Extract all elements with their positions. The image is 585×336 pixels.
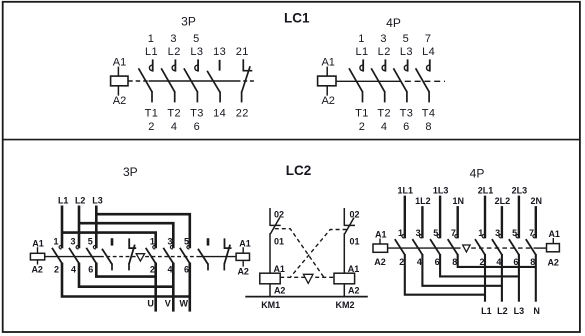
svg-text:T3: T3 (190, 107, 204, 119)
wire KM1 coil to bottom rail (269, 284, 271, 297)
svg-text:KM1: KM1 (261, 300, 280, 310)
output wire W (189, 263, 192, 312)
svg-text:6: 6 (403, 121, 410, 133)
main contact L4-T4 (4P): lower terminal (428, 91, 430, 102)
output wire V (172, 263, 175, 312)
svg-text:T4: T4 (422, 107, 436, 119)
main contact L3-T3: fixed terminal with semicircle (195, 59, 198, 71)
aux NO contact: lower terminal stub (111, 263, 113, 270)
svg-text:8: 8 (425, 121, 432, 133)
svg-text:5: 5 (403, 33, 410, 45)
main contact 4P right pole 2: fixed contact semicircle (499, 234, 502, 237)
svg-text:22: 22 (236, 107, 249, 119)
main contact L2-T2 (4P): moving blade (371, 68, 385, 92)
output wire left pole 6 to L3 (440, 254, 519, 276)
svg-text:A1: A1 (239, 238, 251, 248)
main contact L3-T3: moving blade (184, 68, 198, 92)
svg-text:A2: A2 (237, 267, 249, 277)
wire coil to A2 (117, 86, 119, 96)
output wire left pole 6 to U (96, 263, 155, 277)
linkage line dashed (100, 256, 136, 258)
main contact L3-T3 (4P): fixed terminal with semicircle (404, 59, 407, 71)
svg-text:2L2: 2L2 (495, 196, 511, 206)
aux NO contact 13-14: lower terminal (219, 92, 221, 103)
svg-text:W: W (179, 299, 188, 309)
supply wire L1 (61, 206, 64, 249)
aux NC contact 21-22: moving blade (242, 66, 251, 92)
main contact 3-4 right: fixed contact semicircle (170, 245, 173, 248)
svg-text:L2: L2 (497, 306, 508, 316)
aux NC contact: fixed terminal with stop bar (129, 238, 136, 248)
svg-text:A2: A2 (374, 257, 386, 267)
main contact 1-2 right: moving blade (146, 248, 156, 264)
svg-text:5: 5 (88, 236, 93, 246)
crossover wire L3 to right pole 5 (96, 214, 190, 248)
main contact L2-T2: lower terminal (174, 91, 176, 102)
svg-text:4: 4 (167, 264, 172, 274)
main contact L2-T2 (4P): fixed terminal with semicircle (382, 59, 385, 71)
aux NO contact: moving blade (198, 249, 208, 265)
aux NO contact: lower terminal stub (207, 263, 209, 270)
svg-text:3: 3 (70, 236, 75, 246)
svg-text:L3: L3 (190, 46, 203, 58)
svg-text:U: U (147, 299, 154, 309)
svg-text:L3: L3 (400, 46, 413, 58)
svg-text:6: 6 (513, 257, 518, 267)
mechanical linkage line (solid) (149, 80, 237, 82)
svg-text:L4: L4 (422, 46, 435, 58)
output wire left pole 4 to V (79, 263, 173, 287)
svg-text:1: 1 (148, 33, 155, 45)
svg-text:13: 13 (213, 46, 226, 58)
svg-text:A1: A1 (375, 230, 387, 240)
wire coil to A2 (326, 86, 328, 96)
main contact L1-T1: moving blade (139, 68, 153, 92)
svg-text:6: 6 (435, 257, 440, 267)
main contact 4P right pole 4: fixed contact semicircle (533, 234, 536, 237)
main contact 1-2 left: moving blade (52, 248, 62, 264)
aux NO contact: moving blade (102, 249, 112, 265)
mechanical interlock symbol (136, 254, 144, 261)
mechanical linkage line (dashed near coil) (128, 80, 148, 82)
supply wire (upper row) (439, 196, 441, 239)
coil box LC1 3P (111, 76, 128, 86)
main contact 4P left pole 3: fixed contact semicircle (437, 234, 440, 237)
main contact L3-T3 (4P): moving blade (393, 68, 407, 92)
main contact L1-T1: lower terminal (151, 91, 153, 102)
mechanical interlock symbol (463, 245, 470, 252)
coil box 4P-right (547, 244, 560, 252)
svg-text:3: 3 (380, 33, 387, 45)
svg-text:1: 1 (358, 33, 365, 45)
svg-text:2: 2 (399, 257, 404, 267)
output wire L2 (501, 254, 503, 302)
coil box KM-left (30, 253, 44, 260)
svg-text:L2: L2 (168, 46, 181, 58)
svg-text:7: 7 (425, 33, 432, 45)
wire 01 to KM2 coil (343, 233, 345, 273)
coil box KM1 (260, 273, 280, 284)
output wire U (154, 263, 157, 312)
coil box KM2 (334, 273, 355, 284)
main contact L2-T2: fixed terminal with semicircle (172, 59, 175, 71)
main contact L3-T3 (4P): lower terminal (406, 91, 408, 102)
svg-text:4: 4 (171, 121, 178, 133)
mechanical interlock symbol (303, 274, 313, 283)
main contact L4-T4 (4P): moving blade (416, 68, 430, 92)
output wire left pole 8 to N (458, 254, 536, 267)
mechanical linkage line (dashed right end) (237, 80, 255, 82)
svg-text:01: 01 (274, 236, 284, 246)
main contact 4P right pole 1: moving blade (475, 239, 485, 255)
svg-text:A1: A1 (321, 57, 334, 69)
linkage line dashed (145, 256, 197, 258)
aux NC contact 21-22: lower terminal (241, 92, 243, 103)
main contact L2-T2: moving blade (161, 68, 175, 92)
main contact 1-2 left: fixed contact semicircle (59, 245, 62, 248)
main contact 4P right pole 4: moving blade (526, 239, 536, 255)
svg-text:4: 4 (381, 121, 388, 133)
svg-text:2L1: 2L1 (478, 185, 494, 195)
bottom rail (245, 296, 367, 298)
aux NO contact 13-14: fixed terminal (219, 60, 221, 71)
section divider (3, 139, 580, 141)
supply wire (lower row) (457, 206, 459, 238)
supply wire L3 (95, 206, 98, 249)
svg-text:2N: 2N (531, 196, 543, 206)
aux NC contact 21-22: fixed terminal with stop bar (243, 59, 252, 70)
svg-text:A2: A2 (547, 257, 559, 267)
aux NO contact: fixed terminal (111, 238, 114, 245)
svg-text:6: 6 (194, 121, 201, 133)
svg-text:8: 8 (452, 257, 457, 267)
svg-text:L2: L2 (378, 46, 391, 58)
supply wire (lower row) (421, 206, 423, 238)
svg-text:L1: L1 (355, 46, 368, 58)
svg-text:8: 8 (530, 257, 535, 267)
crossover wire L2 to right pole 3 (79, 223, 173, 248)
svg-text:3: 3 (170, 33, 177, 45)
linkage line solid (left) (45, 256, 100, 258)
crossover wire L1 to right pole 1 (62, 233, 156, 249)
wire A1 to coil (552, 238, 554, 244)
main contact 5-6 left: moving blade (86, 248, 96, 264)
output wire N (535, 254, 537, 302)
KM2 NC contact upper terminal 02 (343, 208, 345, 226)
main contact L1-T1: fixed terminal with semicircle (149, 59, 152, 71)
svg-text:L2: L2 (75, 195, 86, 205)
aux NC contact: lower terminal stub (128, 263, 130, 270)
main contact 3-4 left: moving blade (69, 248, 79, 264)
svg-text:LC2: LC2 (286, 163, 312, 178)
aux NO contact: fixed terminal (207, 238, 210, 245)
wire A1 to coil (242, 247, 244, 253)
main contact 5-6 left: fixed contact semicircle (93, 245, 96, 248)
main contact 3-4 left: fixed contact semicircle (76, 245, 79, 248)
wire coil to A2 (37, 260, 39, 265)
svg-text:1L2: 1L2 (415, 196, 431, 206)
supply wire (lower row) (535, 206, 537, 238)
svg-text:1L3: 1L3 (433, 185, 449, 195)
KM1 NC contact blade (270, 218, 279, 234)
output wire L3 (518, 254, 520, 302)
supply wire (upper row) (404, 196, 406, 239)
interlock link KM2 contact to KM1 coil (dashed) (291, 230, 347, 277)
aux NO contact 13-14: moving blade (207, 71, 220, 93)
KM2 NC contact stop bar (344, 224, 355, 226)
KM1 NC contact stop bar (270, 224, 281, 226)
wire A1 to coil (117, 67, 119, 77)
svg-text:3P: 3P (181, 15, 196, 29)
main contact L4-T4 (4P): fixed terminal with semicircle (427, 59, 430, 71)
svg-text:T1: T1 (145, 107, 159, 119)
main contact 4P right pole 2: moving blade (492, 239, 502, 255)
mechanical linkage line (dashed) (395, 80, 445, 82)
svg-text:T3: T3 (400, 107, 414, 119)
svg-text:T1: T1 (355, 107, 369, 119)
svg-text:N: N (533, 306, 540, 316)
supply wire (lower row) (501, 206, 503, 238)
output wire left pole 4 to L2 (422, 254, 502, 286)
main contact 4P left pole 1: fixed contact semicircle (402, 234, 405, 237)
svg-text:LC1: LC1 (284, 11, 310, 26)
interlock link KM1 contact to KM2 coil (dashed) (275, 229, 324, 277)
linkage line dashed (471, 247, 536, 249)
svg-text:L1: L1 (145, 46, 158, 58)
svg-text:5: 5 (193, 33, 200, 45)
linkage line solid (left) (388, 247, 461, 249)
main contact L1-T1 (4P): fixed terminal with semicircle (360, 59, 363, 71)
main contact 4P left pole 2: fixed contact semicircle (419, 234, 422, 237)
aux NC contact: lower terminal stub (223, 263, 225, 270)
svg-text:A2: A2 (321, 95, 334, 107)
supply wire (upper row) (518, 196, 520, 239)
svg-text:L1: L1 (481, 306, 492, 316)
wire A1 to coil (326, 67, 328, 77)
svg-text:4: 4 (71, 264, 76, 274)
supply wire L2 (78, 206, 81, 249)
main contact L2-T2 (4P): lower terminal (384, 91, 386, 102)
main contact L1-T1 (4P): lower terminal (362, 91, 364, 102)
wire A1 to coil (379, 239, 381, 245)
main contact 5-6 right: fixed contact semicircle (187, 245, 190, 248)
svg-text:2: 2 (148, 121, 155, 133)
svg-text:V: V (165, 299, 171, 309)
svg-text:2: 2 (54, 264, 59, 274)
KM2 NC contact blade (345, 218, 354, 234)
linkage line solid (right) (536, 247, 547, 249)
main contact 4P left pole 2: moving blade (412, 239, 422, 255)
svg-text:A1: A1 (32, 238, 44, 248)
svg-text:1: 1 (53, 236, 58, 246)
svg-text:1N: 1N (452, 196, 464, 206)
KM1 NC contact upper terminal 02 (269, 208, 271, 226)
coil box 4P-left (373, 244, 388, 252)
svg-text:21: 21 (236, 46, 249, 58)
svg-text:A2: A2 (348, 286, 360, 296)
output wire L1 (484, 254, 486, 302)
svg-text:L1: L1 (58, 195, 69, 205)
linkage line solid (right) (197, 256, 236, 258)
aux NC contact: moving blade (224, 245, 230, 264)
coil box KM-right (236, 253, 249, 260)
main contact 1-2 right: fixed contact semicircle (153, 245, 156, 248)
svg-text:2L3: 2L3 (512, 185, 528, 195)
output wire left pole 2 to W (62, 263, 190, 297)
mechanical linkage line (solid) (336, 80, 395, 82)
svg-text:A2: A2 (113, 95, 126, 107)
svg-text:4P: 4P (386, 16, 401, 30)
wire KM2 coil to bottom rail (343, 284, 345, 297)
svg-text:6: 6 (184, 264, 189, 274)
wire coil to A2 (242, 260, 244, 266)
main contact 4P right pole 3: moving blade (509, 239, 519, 255)
aux NC contact: moving blade (129, 245, 135, 264)
main contact 4P right pole 1: fixed contact semicircle (482, 234, 485, 237)
main contact 3-4 right: moving blade (163, 248, 173, 264)
svg-text:L3: L3 (92, 195, 103, 205)
svg-text:4: 4 (496, 257, 501, 267)
svg-text:01: 01 (349, 236, 359, 246)
supply wire (upper row) (484, 196, 486, 239)
svg-text:1L1: 1L1 (398, 185, 414, 195)
svg-text:3P: 3P (123, 165, 138, 179)
main contact 4P left pole 3: moving blade (430, 239, 440, 255)
svg-text:A2: A2 (31, 265, 43, 275)
wire 01 to KM1 coil (269, 233, 271, 273)
svg-text:KM2: KM2 (335, 300, 354, 310)
main contact 4P left pole 1: moving blade (395, 239, 405, 255)
svg-text:4: 4 (417, 257, 422, 267)
svg-text:L3: L3 (514, 306, 525, 316)
coil box LC1 4P (318, 76, 336, 86)
svg-text:A1: A1 (113, 57, 126, 69)
main contact L3-T3: lower terminal (196, 91, 198, 102)
main contact 5-6 right: moving blade (180, 248, 190, 264)
aux NC contact: fixed terminal with stop bar (225, 238, 232, 248)
main contact 4P left pole 4: moving blade (448, 239, 458, 255)
output wire left pole 2 to L1 (405, 254, 485, 295)
wire A1 to coil (37, 247, 39, 253)
svg-text:A1: A1 (548, 229, 560, 239)
svg-text:6: 6 (88, 264, 93, 274)
svg-text:2: 2 (359, 121, 366, 133)
interlock line between coils (dashed) (280, 276, 334, 278)
main contact 4P left pole 4: fixed contact semicircle (455, 234, 458, 237)
svg-text:A2: A2 (274, 286, 286, 296)
svg-text:2: 2 (479, 257, 484, 267)
svg-text:14: 14 (213, 107, 226, 119)
main contact 4P right pole 3: fixed contact semicircle (516, 234, 519, 237)
svg-text:T2: T2 (167, 107, 181, 119)
svg-text:2: 2 (150, 264, 155, 274)
svg-text:4P: 4P (470, 167, 485, 181)
svg-text:T2: T2 (377, 107, 391, 119)
main contact L1-T1 (4P): moving blade (349, 68, 363, 92)
